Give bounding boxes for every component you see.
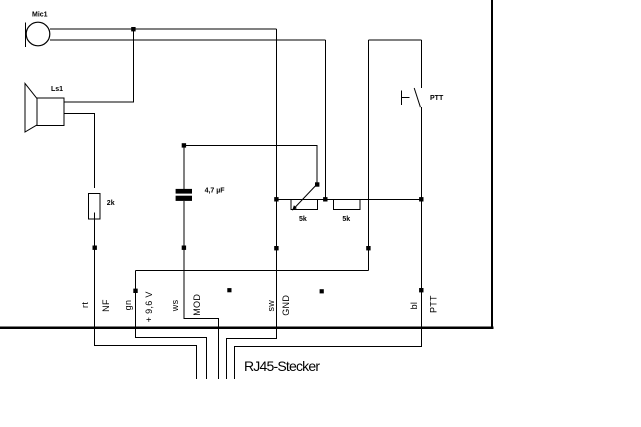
svg-text:2k: 2k <box>107 200 115 207</box>
svg-text:GND: GND <box>281 295 291 316</box>
pin nc square 2 <box>320 289 324 293</box>
svg-text:PTT: PTT <box>428 295 438 313</box>
wire mic bottom <box>50 39 326 41</box>
wire mic-bottom down to pot line <box>324 40 326 200</box>
wire cap top to wiper <box>184 145 317 184</box>
svg-text:4,7 µF: 4,7 µF <box>205 188 226 195</box>
svg-text:Mic1: Mic1 <box>32 12 48 19</box>
wire pot line <box>276 198 421 200</box>
pin nc square 1 <box>227 288 231 292</box>
svg-text:5k: 5k <box>299 216 307 223</box>
wire resistor to connector (rt/NF) <box>95 213 197 379</box>
wire cap bottom (ws/MOD line) <box>184 201 218 379</box>
wire speaker bottom terminal <box>64 113 95 188</box>
node sw pot junction <box>274 197 278 201</box>
node mic junction <box>131 27 135 31</box>
resistor 2k <box>89 194 115 220</box>
potentiometer P1 5k <box>291 185 318 224</box>
resistor R2 5k <box>334 199 361 223</box>
svg-text:ws: ws <box>170 299 180 312</box>
wire gn horizontal <box>136 270 369 272</box>
wire junction to speaker <box>64 29 133 102</box>
svg-text:5k: 5k <box>342 216 350 223</box>
node gn pin <box>133 289 137 293</box>
node wiper tip <box>315 182 319 186</box>
node bl pin <box>419 288 423 292</box>
svg-text:PTT: PTT <box>430 95 444 102</box>
svg-text:RJ45-Stecker: RJ45-Stecker <box>244 358 320 374</box>
node mic2 pot junction <box>323 197 327 201</box>
node cap top corner <box>182 143 186 147</box>
wire PTT loop left <box>367 40 369 270</box>
capacitor C1 4,7uF <box>176 188 226 201</box>
svg-text:sw: sw <box>266 300 276 312</box>
svg-text:Ls1: Ls1 <box>51 86 63 93</box>
wire mic top <box>50 28 277 30</box>
wire bl/PTT line to bundle <box>234 107 421 379</box>
node ws pin <box>182 246 186 250</box>
svg-text:rt: rt <box>80 302 90 308</box>
node rt pin <box>93 246 97 250</box>
wire PTT loop top <box>368 39 421 41</box>
node loop pin <box>366 246 370 250</box>
wire mic-top down (sw/GND line) <box>227 29 277 379</box>
microphone Mic1 <box>26 12 50 48</box>
speaker Ls1 <box>25 83 64 132</box>
border frame right edge <box>491 0 493 329</box>
wire gn vertical to bundle <box>136 271 207 379</box>
switch S1 PTT <box>402 40 444 107</box>
node sw pin <box>274 246 278 250</box>
svg-text:bl: bl <box>409 302 419 310</box>
svg-text:MOD: MOD <box>192 294 202 316</box>
wire cap top stub <box>183 145 185 189</box>
svg-text:gn: gn <box>123 300 133 311</box>
node bl pot junction <box>419 197 423 201</box>
svg-text:NF: NF <box>101 299 111 312</box>
svg-text:+ 9,6 V: + 9,6 V <box>144 291 154 322</box>
border frame bottom edge <box>0 327 494 329</box>
